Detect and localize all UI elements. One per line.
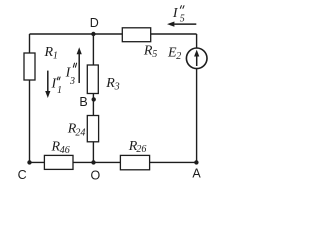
svg-text:C: C [18,168,27,182]
svg-text:B: B [79,95,87,109]
svg-text:A: A [192,167,201,181]
svg-text:1: 1 [57,85,62,96]
svg-text:2: 2 [176,51,181,62]
svg-text:3: 3 [69,76,75,87]
svg-text:26: 26 [136,144,146,155]
svg-text:1: 1 [53,50,58,61]
svg-text:3: 3 [114,82,120,93]
svg-text:46: 46 [60,145,70,156]
svg-text:D: D [90,16,99,30]
svg-text:I: I [172,6,179,21]
svg-text:24: 24 [75,127,85,138]
svg-text:5: 5 [180,13,185,24]
svg-text:O: O [91,168,101,182]
svg-text:5: 5 [152,49,157,60]
